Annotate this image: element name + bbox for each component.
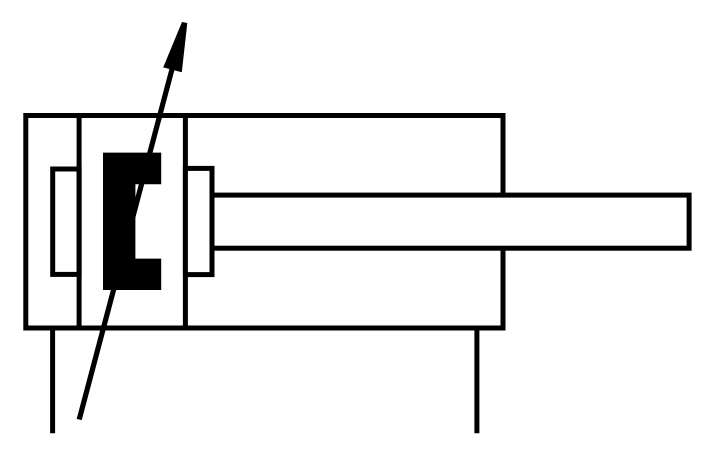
rear port line [50, 328, 55, 434]
piston cushioning seal (black C bracket) [103, 153, 161, 290]
cylinder barrel (body) [26, 116, 503, 329]
rear cushioning sleeve rectangle [53, 169, 79, 274]
piston plate [185, 168, 212, 274]
cushion adjustment arrowhead [163, 22, 187, 72]
front port line [474, 328, 479, 434]
rear end-cap division wall [77, 113, 82, 331]
cushion adjustment arrow shaft (lower segment) [79, 56, 175, 420]
piston rod [212, 195, 689, 248]
piston division wall [183, 113, 188, 331]
